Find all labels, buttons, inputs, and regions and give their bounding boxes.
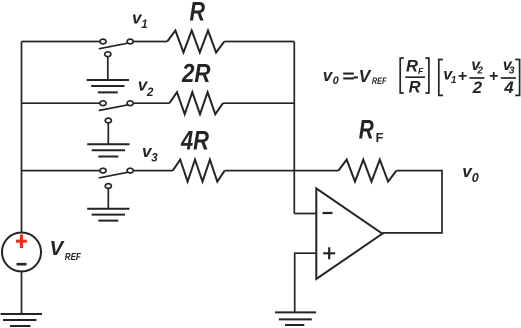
wire bus to inverting input: [294, 213, 316, 215]
resistor 4R: [173, 160, 225, 182]
svg-text:3: 3: [151, 152, 158, 164]
ground below op-amp: [275, 312, 316, 325]
wire R to right bus: [224, 41, 294, 43]
svg-text:F: F: [376, 131, 384, 145]
switch S2: [99, 101, 134, 123]
wire left bus: [21, 42, 23, 233]
wire 2R to right bus: [223, 102, 294, 104]
ground below S1: [87, 80, 129, 92]
label 4R: [180, 125, 209, 155]
resistor R: [167, 31, 224, 53]
resistor 2R: [169, 92, 223, 114]
svg-text:4: 4: [503, 78, 514, 97]
wire row3 left: [22, 170, 101, 172]
wire VREF to ground: [21, 272, 23, 314]
svg-text:1: 1: [141, 19, 147, 31]
resistor RF: [338, 160, 396, 182]
svg-text:+: +: [489, 68, 498, 85]
svg-text:R: R: [190, 0, 206, 27]
wire RF to output corner: [382, 171, 442, 233]
wire row1 left: [22, 41, 101, 43]
ground below S3: [87, 209, 129, 221]
wire S1 to ground: [107, 57, 109, 80]
switch S1: [99, 39, 134, 57]
svg-text:-V: -V: [353, 66, 372, 86]
node v1 label: [132, 9, 148, 32]
op-amp U1: [316, 188, 382, 279]
svg-text:0: 0: [472, 171, 479, 185]
label RF: [359, 114, 384, 144]
wire right bus: [293, 42, 295, 214]
svg-text:4R: 4R: [180, 125, 209, 155]
ground below S2: [87, 144, 129, 156]
node vo label: [462, 162, 479, 185]
voltage source VREF: [2, 233, 41, 272]
ground below VREF: [1, 314, 43, 326]
svg-text:+: +: [458, 68, 467, 85]
label R: [190, 0, 206, 27]
wire 4R through junction to RF: [225, 170, 339, 172]
svg-text:R: R: [359, 114, 374, 144]
node v2 label: [138, 76, 154, 99]
wire row2 left: [22, 102, 101, 104]
wire noninverting input to ground: [295, 253, 317, 312]
svg-text:REF: REF: [372, 76, 387, 87]
svg-text:REF: REF: [65, 252, 82, 263]
wire S2 to ground: [107, 123, 109, 144]
svg-text:2R: 2R: [181, 60, 211, 88]
svg-text:3: 3: [509, 65, 515, 76]
label 2R: [181, 60, 211, 88]
svg-text:1: 1: [451, 75, 457, 86]
svg-text:2: 2: [472, 78, 483, 97]
switch S3: [99, 168, 134, 188]
svg-text:2: 2: [476, 65, 483, 76]
svg-text:2: 2: [146, 87, 154, 99]
svg-text:V: V: [50, 237, 66, 260]
svg-text:F: F: [418, 66, 424, 76]
wire S3 to 4R: [133, 170, 173, 172]
svg-text:R: R: [406, 58, 418, 76]
wire S1 to R: [133, 41, 167, 43]
node v3 label: [142, 142, 158, 165]
label VREF: [50, 237, 82, 263]
wire S3 to ground: [107, 188, 109, 208]
formula annotation: [323, 66, 387, 87]
svg-text:R: R: [409, 78, 421, 96]
svg-text:0: 0: [333, 75, 340, 87]
wire S2 to 2R: [133, 102, 169, 104]
